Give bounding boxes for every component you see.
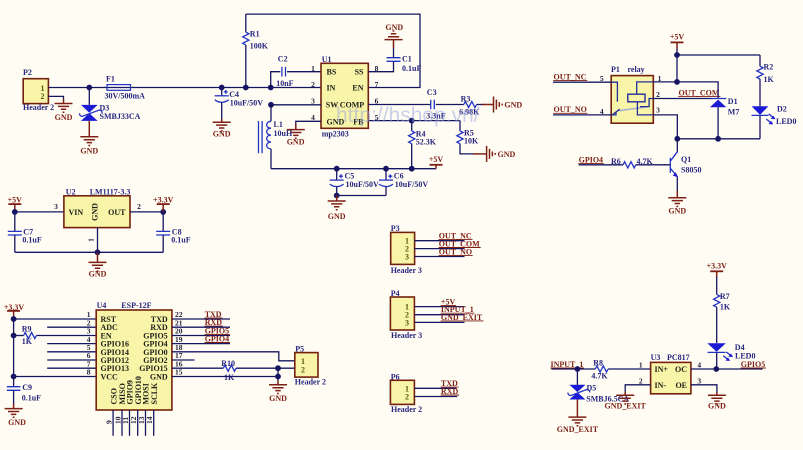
svg-text:C1: C1 [402,54,412,63]
svg-text:10nF: 10nF [276,79,293,88]
connector P3 [391,224,422,275]
svg-text:C2: C2 [278,54,288,63]
svg-text:10uH: 10uH [274,129,293,138]
svg-text:CSO: CSO [109,388,118,404]
svg-text:R7: R7 [720,292,730,301]
svg-text:R9: R9 [22,324,32,333]
svg-text:9: 9 [105,420,114,424]
node junction pin15 [275,374,281,380]
ground under C9 [13,404,15,409]
svg-text:15: 15 [175,368,183,377]
wire U4 pin22 TXD [172,318,230,320]
svg-text:OC: OC [675,365,687,374]
svg-text:8: 8 [87,368,91,377]
svg-text:GND: GND [504,101,522,110]
node junction pin1 [11,316,17,322]
svg-text:P5: P5 [295,345,304,354]
svg-text:P3: P3 [391,224,400,233]
svg-text:2: 2 [311,80,315,89]
wire P4 pin3 [414,321,464,323]
node junction C7 [12,209,18,215]
svg-text:0.1uF: 0.1uF [22,393,41,402]
wire P2 pin1 main rail to U1 IN [48,87,321,89]
power port +5V at rail end [435,165,437,169]
svg-text:LED0: LED0 [776,117,796,126]
svg-text:GND: GND [89,270,107,279]
ground right of R5 (sideways) [474,153,487,155]
node junction +5V [674,52,680,58]
ground under pin3 [716,392,718,395]
svg-text:SMBJ33CA: SMBJ33CA [100,112,141,121]
ground right of R3 (sideways) [482,104,494,106]
connector P4 [390,289,422,340]
svg-text:14: 14 [145,416,154,424]
capacitor C9 0.1uF [7,383,41,404]
wire R1 top to EN pin [246,14,420,87]
svg-text:IN-: IN- [655,381,667,390]
capacitor C5 10uF/50V [330,169,379,196]
connector P5 [295,345,326,387]
svg-text:0.1uF: 0.1uF [22,236,41,245]
svg-text:3: 3 [54,202,58,211]
svg-text:0.1uF: 0.1uF [171,236,190,245]
node junction C6 [383,166,389,172]
ground GND_EXIT under pin2 [624,392,626,395]
svg-text:52.3K: 52.3K [416,138,437,147]
resistor R1 100K [243,14,269,87]
svg-text:M7: M7 [728,108,740,117]
svg-text:F1: F1 [106,75,115,84]
svg-text:5: 5 [600,74,604,83]
svg-text:3: 3 [697,376,701,385]
wire P6 pin2 [414,396,457,398]
U4 bottom pin 10 [121,410,123,436]
wire U3 pin3 OE to GND [691,385,717,393]
svg-text:GND_EXIT: GND_EXIT [605,401,647,410]
svg-text:VCC: VCC [101,373,119,382]
node junction U2 ground [95,249,101,255]
TVS diode D5 SMBJ6.5CA [568,369,630,403]
svg-text:Header 2: Header 2 [391,405,422,414]
svg-text:SCLK: SCLK [150,382,159,405]
U4 bottom pin 14 [153,410,155,436]
node junction relay pin1 [674,79,680,85]
svg-text:1K: 1K [224,373,235,382]
node junction C4 [219,85,225,91]
svg-text:Header 3: Header 3 [391,331,422,340]
svg-text:2: 2 [405,393,409,402]
svg-text:2: 2 [301,365,305,374]
svg-text:1: 1 [639,361,643,370]
ground above C1 (inverted) [393,40,395,48]
node junction D5 [575,366,581,372]
wire INPUT_1 to R8 [551,368,595,370]
svg-text:2: 2 [137,202,141,211]
node junction C2 branch [268,85,274,91]
svg-text:C9: C9 [22,383,32,392]
svg-text:+3.3V: +3.3V [707,262,728,271]
svg-text:100K: 100K [250,41,269,50]
svg-text:C4: C4 [229,90,239,99]
svg-text:3: 3 [656,106,660,115]
wire U4 pin20 GPIO5 [172,335,230,337]
LED D4 LED0 [707,343,755,369]
svg-text:4: 4 [697,361,701,370]
svg-text:10uF/50V: 10uF/50V [230,99,264,108]
svg-text:3: 3 [405,318,409,327]
svg-text:10K: 10K [464,137,479,146]
fuse F1 30V/500mA [105,75,146,101]
svg-text:U3: U3 [651,353,661,362]
node junction D4/OC [713,366,719,372]
svg-text:3: 3 [405,253,409,262]
svg-text:U4: U4 [97,301,107,310]
svg-text:2: 2 [656,90,660,99]
svg-text:P1: P1 [611,65,620,74]
module U4 ESP-12F [87,301,183,410]
wire U4 pin17 stub [172,359,195,361]
wire U1 pin4 GND [296,121,321,127]
LED D2 LED0 [752,105,797,139]
wire U4 pin5 stub [47,351,96,353]
svg-text:U2: U2 [66,188,76,197]
svg-text:GND: GND [287,137,305,146]
svg-text:GND: GND [385,23,403,32]
TVS diode D3 SMBJ33CA [79,88,140,121]
wire relay pin5 [553,81,611,83]
wire U4 pin21 RXD [172,326,230,328]
svg-text:GND: GND [269,394,287,403]
svg-text:L1: L1 [274,120,283,129]
svg-text:mp2303: mp2303 [322,130,349,139]
wire P4 pin1 [414,306,464,308]
svg-text:GND: GND [55,113,73,122]
node junction VCC [11,374,17,380]
transistor Q1 S8050 [670,152,701,191]
svg-text:LM1117-3.3: LM1117-3.3 [90,188,131,197]
wire +5V to U2 pin3 [15,211,64,213]
svg-text:D2: D2 [777,105,787,114]
svg-text:GPIO4: GPIO4 [579,156,603,165]
svg-text:SS: SS [355,68,364,77]
svg-text:Header 2: Header 2 [295,377,326,386]
svg-text:OE: OE [675,381,687,390]
svg-text:7: 7 [375,80,379,89]
svg-text:4: 4 [600,107,604,116]
resistor R2 1K [757,55,775,106]
U4 bottom pin 9 [112,410,114,436]
ground under U2 [97,252,99,262]
wire P3 pin2 [415,248,465,250]
svg-text:1K: 1K [764,75,775,84]
svg-text:GND: GND [150,373,168,382]
svg-text:+5V: +5V [670,32,685,41]
wire P3 pin1 [415,240,465,242]
svg-text:P6: P6 [391,373,400,382]
wire U4 pin1 RST [14,318,97,320]
node junction C5 bottom [334,193,340,199]
resistor R4 52.3K [409,121,437,169]
wire U4 pin15 GND [172,376,278,378]
wire relay pin4 [553,114,611,116]
wire +5V rail under U1 [271,168,436,170]
svg-text:Header 3: Header 3 [391,266,422,275]
svg-text:R10: R10 [221,359,235,368]
wire GPIO4 to R6 [579,164,623,166]
inductor L1 10uH [259,105,293,169]
svg-text:GND: GND [498,150,516,159]
resistor R8 4.7K [591,359,650,381]
svg-text:IN+: IN+ [655,365,669,374]
node junction R9 [11,333,17,339]
diode D1 M7 [677,82,739,139]
svg-text:R6: R6 [611,157,621,166]
wire +3.3V rail [13,316,15,387]
svg-text:GND: GND [80,146,98,155]
svg-text:D5: D5 [587,384,597,393]
svg-text:1: 1 [87,238,96,242]
svg-text:GND: GND [668,207,686,216]
svg-text:U1: U1 [322,55,332,64]
wire U4 pin6 stub [47,359,96,361]
wire U4 pin7 stub [47,367,96,369]
ground GND_EXIT under D5 [576,400,578,418]
opto-coupler U3 PC817 [639,353,702,394]
node junction D1 bottom [715,136,721,142]
wire junctions vertical [277,368,279,381]
svg-text:1K: 1K [720,303,731,312]
svg-text:2: 2 [41,92,45,101]
svg-text:0.1uF: 0.1uF [402,64,421,73]
svg-text:VIN: VIN [69,208,84,217]
svg-text:D4: D4 [735,343,745,352]
capacitor C6 10uF/50V [379,169,428,196]
wire U4 pin2 ADC stub [47,326,96,328]
resistor R5 10K [457,121,479,154]
svg-text:GND: GND [8,418,26,427]
ground under D3 [88,121,90,137]
svg-text:GND: GND [91,203,100,221]
svg-text:1: 1 [658,74,662,83]
svg-text:2: 2 [639,376,643,385]
svg-text:GND_EXIT: GND_EXIT [557,425,599,434]
svg-text:+5V: +5V [429,155,444,164]
svg-text:D1: D1 [728,97,738,106]
resistor R7 1K [714,277,731,343]
node junction R1 [243,85,249,91]
wire ground bus under U2 [15,251,163,253]
capacitor C1 0.1uF [387,48,422,74]
svg-text:GND: GND [708,401,726,410]
node junction C5 [334,166,340,172]
wire U1 pin5 FB [368,120,460,122]
wire bottom rail to Q1 [677,138,760,140]
resistor R6 4.7K [611,157,670,168]
svg-text:GND: GND [328,212,346,221]
svg-text:S8050: S8050 [681,165,701,174]
power port +3.3V at U2 output [160,209,166,215]
node junction Q1 collector rail [674,136,680,142]
svg-text:10uF/50V: 10uF/50V [346,180,380,189]
svg-text:ESP-12F: ESP-12F [121,301,151,310]
wire U2 GND pin down [97,228,99,253]
svg-text:BS: BS [327,68,337,77]
wire P4 pin2 [414,314,464,316]
wire U4 pin19 GPIO4 [172,343,230,345]
svg-text:relay: relay [628,65,645,74]
node junction FB/R4 [409,118,415,124]
svg-text:PC817: PC817 [667,353,690,362]
resistor R9 1K [14,324,97,346]
wire P6 pin1 [414,387,456,389]
ground under R10 [277,381,279,385]
node junction R10/P5 [275,365,281,371]
wire U3 pin2 to GND_EXIT [625,385,650,393]
svg-text:IN: IN [327,84,336,93]
U4 bottom pin 13 [145,410,147,436]
wire U3 pin4 OC to GPIO5 [691,368,763,370]
svg-text:R3: R3 [461,95,471,104]
wire P3 pin3 [415,256,465,258]
wire U4 pin8 VCC [14,376,97,378]
capacitor C7 0.1uF [8,212,42,252]
ground under C5 [336,196,338,202]
svg-text:OUT_NO: OUT_NO [554,105,587,114]
wire U1 pin6 COMP [368,104,430,106]
wire relay pin1 to +5V node [653,81,677,83]
wire U1 pin3 SW [271,104,321,106]
svg-text:+3.3V: +3.3V [153,196,174,205]
svg-text:30V/500mA: 30V/500mA [105,92,146,101]
svg-text:R2: R2 [764,63,774,72]
svg-text:P2: P2 [23,68,32,77]
wire U4 pin4 stub [47,343,96,345]
capacitor C8 0.1uF [156,212,191,252]
svg-text:GND: GND [213,129,231,138]
resistor R10 1K [221,359,295,382]
svg-text:4.7K: 4.7K [591,371,608,380]
op-amp U1 mp2303 regulator [311,55,379,139]
capacitor C4 10uF/50V [215,88,264,120]
connector P6 [390,373,422,415]
svg-text:http://hshop.vn/: http://hshop.vn/ [336,104,480,127]
svg-text:Header 2: Header 2 [23,103,54,112]
svg-text:R1: R1 [250,29,260,38]
svg-text:C3: C3 [427,88,437,97]
svg-text:OUT: OUT [108,208,126,217]
wire U1 pin8 SS to C1 [368,62,393,72]
node junction R4 bottom [409,166,415,172]
U4 bottom pin 12 [137,410,139,436]
relay P1 [611,65,653,123]
node junction main rail / D3 [86,85,92,91]
wire U4 pin16 GPIO15 to R10 [172,367,223,369]
svg-text:1K: 1K [22,337,33,346]
regulator U2 LM1117-3.3 [64,188,130,228]
resistor R3 6.98K [459,95,483,117]
ground under P2 [63,99,65,104]
capacitor C2 10nF [271,54,321,88]
ground U1 pin4 [295,124,297,130]
wire relay pin2 OUT_COM [653,98,712,100]
wire +5V to R2 and relay pin1 [677,49,760,82]
wire U2 pin2 OUT [130,211,163,213]
wire U4 pin18 GPIO0 to P5 [172,352,295,361]
svg-text:EN: EN [352,84,363,93]
svg-text:10uF/50V: 10uF/50V [395,180,429,189]
svg-text:P4: P4 [391,289,400,298]
svg-text:R8: R8 [593,359,603,368]
capacitor C3 3.3nF [426,88,464,120]
svg-text:1: 1 [311,64,315,73]
ground under C4 [221,119,223,123]
wire P2 pin2 to ground [48,96,63,99]
connector P2 [23,68,54,112]
ground under Q1 [676,191,678,198]
U4 bottom pin 11 [129,410,131,436]
wire C5/C6 bottoms [337,195,386,197]
svg-text:Q1: Q1 [681,155,691,164]
node junction SW/L1 [268,102,274,108]
wire relay pin3 to Q1 collector [653,115,677,152]
